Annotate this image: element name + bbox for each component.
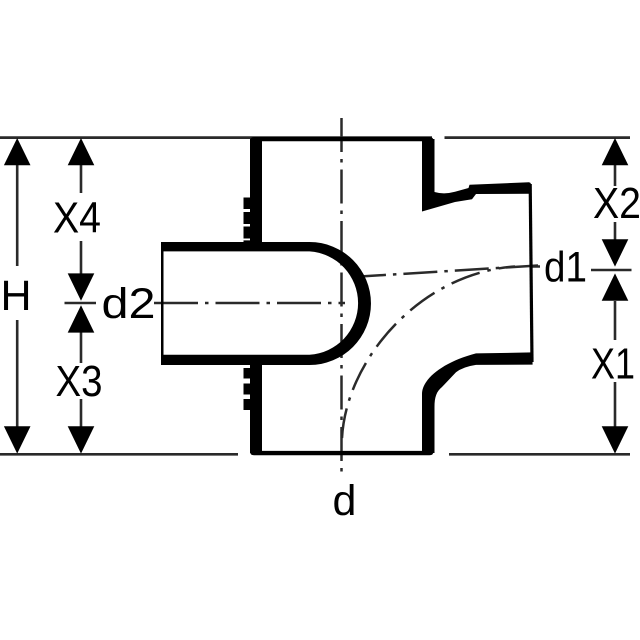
arrowhead X4 top	[68, 138, 95, 165]
tick at d1 junction	[591, 269, 632, 272]
dimension line X2	[614, 150, 617, 240]
arrowhead X1 bottom	[602, 426, 629, 453]
svg-text:d1: d1	[544, 244, 587, 292]
ridge teeth upper	[244, 198, 251, 243]
top extension line	[0, 136, 630, 139]
svg-text:d2: d2	[102, 280, 156, 328]
fitting top end face	[250, 137, 434, 141]
arrowhead H top	[4, 138, 31, 165]
ridge teeth lower	[244, 368, 251, 410]
arrowhead X1 top	[602, 273, 629, 300]
svg-text:X4: X4	[53, 194, 101, 243]
svg-text:H: H	[1, 272, 32, 320]
svg-text:X2: X2	[593, 179, 640, 228]
branch end face d1	[530, 184, 532, 362]
arrowhead X3 bottom	[68, 426, 95, 453]
dimension line X4	[80, 150, 83, 285]
arrowhead X2 bottom	[602, 239, 629, 266]
svg-text:X1: X1	[591, 340, 635, 389]
tick at d2 junction	[65, 302, 97, 305]
dimension line X3	[80, 321, 83, 445]
branch bottom wall, fillet and right wall lower	[422, 352, 533, 453]
arrowhead X2 top	[602, 138, 629, 165]
svg-text:X3: X3	[56, 357, 103, 406]
svg-text:d: d	[333, 477, 357, 525]
left wall upper	[250, 139, 262, 243]
right wall upper and branch top wall	[422, 139, 531, 212]
centerline curve (branch flow dash-dot arc)	[342, 267, 515, 439]
dimension line H	[16, 150, 19, 445]
centerline d1 (sloped dash-dot)	[352, 266, 538, 278]
d1 short dash to label	[530, 265, 540, 268]
left socket d2 (capsule ring)	[161, 242, 371, 365]
bottom extension line	[0, 453, 630, 456]
arrowhead X3 top	[68, 305, 95, 332]
arrowhead H bottom	[4, 426, 31, 453]
dimension line X1	[614, 301, 617, 445]
centerline d2 (horizontal dash-dot)	[154, 302, 345, 305]
fitting bottom end face	[250, 451, 434, 455]
arrowhead X4 bottom	[68, 273, 95, 300]
centerline d (vertical dash-dot)	[340, 118, 343, 478]
left wall lower	[250, 364, 262, 453]
